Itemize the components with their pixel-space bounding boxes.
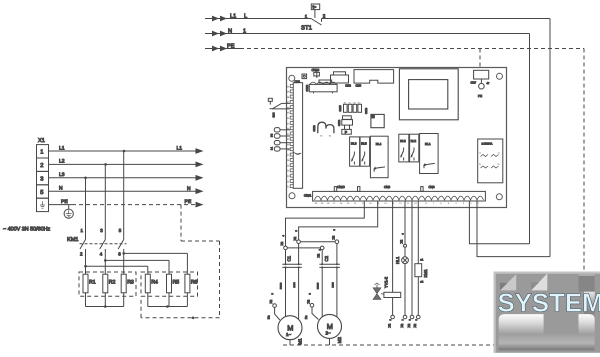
relay RL3 — [399, 134, 409, 162]
wire pin1 to L — [477, 201, 550, 257]
wire L1 from X1 — [49, 150, 197, 152]
wire PE from X1 dashed — [49, 204, 73, 206]
svg-text:14: 14 — [479, 151, 481, 154]
svg-text:X2: X2 — [407, 323, 411, 327]
relay module K2 2.5kW — [478, 139, 503, 183]
svg-text:RL2: RL2 — [411, 139, 417, 143]
wire PE branch down to CN7 — [479, 49, 481, 71]
resistor R6 — [185, 274, 190, 293]
svg-text:R6: R6 — [191, 280, 198, 286]
wire L3 from X1 — [49, 177, 197, 179]
svg-text:CN7: CN7 — [471, 81, 477, 85]
svg-text:CN11: CN11 — [304, 193, 312, 197]
relay RL4 — [370, 136, 388, 178]
relay RL5 — [360, 137, 370, 166]
svg-text:5: 5 — [295, 230, 298, 232]
svg-text:L3: L3 — [59, 172, 65, 178]
svg-text:RL5: RL5 — [361, 142, 367, 146]
svg-text:N: N — [187, 186, 191, 192]
terminal cover top — [354, 70, 394, 84]
external switch SB1 — [268, 98, 272, 101]
svg-text:X1: X1 — [38, 138, 45, 144]
resistor R5 — [167, 274, 172, 293]
svg-text:CN2: CN2 — [345, 83, 351, 87]
capacitor C1 — [285, 250, 287, 265]
svg-text:2~: 2~ — [326, 331, 331, 336]
wire L2 from X1 — [49, 163, 197, 165]
star point bus R1-R3 — [85, 293, 87, 307]
wire PE dashed branch down from X1 PE line — [180, 205, 182, 241]
KM1 linkage dashed — [80, 243, 127, 245]
KM1 pole 1 — [85, 178, 87, 240]
component D1 small square — [302, 74, 307, 79]
svg-text:X2: X2 — [293, 236, 297, 240]
svg-text:13: 13 — [498, 151, 500, 154]
svg-text:RL4: RL4 — [376, 142, 382, 146]
svg-text:X2: X2 — [413, 323, 417, 327]
svg-text:2: 2 — [40, 162, 43, 169]
wire X2-4 to X2-4b — [287, 247, 320, 249]
svg-text:4: 4 — [282, 235, 285, 237]
node X2-7 — [403, 315, 407, 319]
svg-text:CN20: CN20 — [338, 119, 341, 126]
IC U1 — [371, 114, 384, 127]
node X2-8 — [410, 315, 414, 319]
svg-text:blu: blu — [268, 315, 271, 319]
svg-text:1: 1 — [40, 150, 43, 156]
svg-text:2: 2 — [80, 252, 83, 257]
svg-text:3: 3 — [401, 233, 404, 235]
relay RL1 — [420, 134, 439, 174]
svg-text:SB8: SB8 — [272, 112, 275, 117]
svg-text:1: 1 — [243, 28, 246, 34]
svg-text:~ 400V 3N 50/60Hz: ~ 400V 3N 50/60Hz — [3, 227, 51, 233]
relay module CN2/CN3 — [331, 75, 349, 83]
svg-text:HL1: HL1 — [395, 256, 400, 264]
wire C2 to M2 — [321, 267, 323, 317]
svg-text:L: L — [244, 13, 247, 19]
svg-text:3: 3 — [100, 228, 103, 233]
mounting hole — [289, 75, 295, 81]
svg-text:23: 23 — [498, 163, 500, 166]
svg-text:5: 5 — [119, 228, 122, 233]
relay RL2 — [410, 134, 419, 162]
svg-text:L1: L1 — [177, 146, 183, 152]
mounting hole — [289, 193, 295, 199]
svg-text:R3: R3 — [127, 280, 134, 286]
wire PE down right side — [583, 49, 585, 273]
motor M2 — [318, 314, 342, 338]
lamp HL1 — [402, 257, 409, 264]
svg-text:M1: M1 — [298, 338, 303, 345]
resistor R2 — [103, 274, 108, 293]
node X2-2 (M2) — [310, 303, 314, 307]
star point bus R4-R6 — [147, 293, 149, 307]
svg-text:4: 4 — [100, 252, 103, 257]
coil KM1 — [417, 201, 419, 264]
svg-text:L1: L1 — [230, 13, 236, 19]
relay RL6 — [350, 137, 360, 166]
svg-text:R2: R2 — [109, 280, 116, 286]
svg-text:blu: blu — [305, 315, 308, 319]
svg-text:1: 1 — [81, 228, 84, 233]
transformer T1 — [399, 69, 458, 120]
mounting hole — [496, 194, 502, 200]
wire pin15 to X2-5 — [299, 201, 378, 240]
svg-text:5: 5 — [40, 190, 43, 196]
svg-text:1~: 1~ — [286, 332, 291, 337]
wire X2-5 to X2-5b — [300, 241, 335, 243]
svg-text:C1: C1 — [287, 255, 292, 261]
svg-text:nero: nero — [332, 282, 335, 288]
svg-text:5: 5 — [333, 229, 336, 231]
svg-text:ST1: ST1 — [301, 25, 313, 32]
svg-text:X2: X2 — [331, 235, 335, 239]
node X2-3 — [404, 244, 407, 247]
svg-text:X2: X2 — [387, 323, 391, 327]
component above CN12 — [319, 80, 332, 83]
wire pole3 to R3 and R6 — [122, 252, 125, 255]
svg-text:L2: L2 — [59, 159, 65, 165]
wire pin11 to HL1 — [404, 201, 406, 244]
svg-text:2.5kW/4A: 2.5kW/4A — [482, 142, 493, 145]
wire L feed top — [205, 18, 311, 20]
svg-text:C2: C2 — [324, 255, 329, 261]
svg-text:rosso: rosso — [316, 282, 319, 289]
svg-text:M2: M2 — [337, 337, 342, 344]
svg-text:RL1: RL1 — [425, 142, 431, 146]
wire PE feed top dashed — [205, 48, 240, 50]
resistor R3 — [121, 274, 126, 293]
wire pin10 down — [411, 201, 413, 315]
wire X2-5b to C2 — [336, 244, 338, 265]
node X2-5b — [335, 240, 339, 244]
heating bank enclosure 2 dashed — [141, 272, 198, 296]
wire pin2 to N — [469, 201, 529, 244]
svg-text:CN6: CN6 — [429, 185, 435, 189]
svg-text:CN13: CN13 — [312, 68, 320, 72]
svg-text:CN12: CN12 — [306, 84, 309, 91]
svg-text:CN15: CN15 — [339, 105, 342, 112]
wire PE dashed under motors — [283, 344, 494, 346]
svg-text:R4: R4 — [151, 280, 158, 286]
svg-text:1: 1 — [305, 14, 308, 19]
mounting hole — [497, 73, 503, 79]
svg-text:CN3: CN3 — [356, 83, 362, 87]
node X2-2 (M1) — [273, 304, 277, 308]
wire N down right side — [529, 34, 531, 244]
node PE junction — [192, 317, 195, 320]
wire X2-4b to C2 — [321, 250, 323, 265]
node X2-5 — [297, 240, 301, 244]
wire pin12 to YV1-2 — [392, 201, 394, 292]
earth symbol below PE — [68, 205, 70, 209]
wire L to right — [322, 18, 551, 20]
wire C1 to M1 — [285, 267, 287, 316]
wire L down right side — [549, 19, 551, 257]
heating bank enclosure 1 dashed — [79, 272, 136, 296]
svg-text:SYSTEM: SYSTEM — [498, 288, 600, 318]
svg-text:I-1: I-1 — [270, 146, 273, 150]
svg-text:CN16: CN16 — [313, 125, 316, 132]
svg-text:2: 2 — [323, 14, 326, 19]
node X2-9 — [417, 315, 421, 319]
KM1 pole 2 — [104, 164, 106, 239]
svg-text:a2: a2 — [420, 280, 423, 283]
svg-text:CN10: CN10 — [337, 185, 345, 189]
svg-text:t>: t> — [313, 5, 317, 10]
svg-text:nero: nero — [293, 282, 296, 288]
svg-text:L1: L1 — [59, 145, 65, 151]
resistor R4 — [145, 274, 150, 293]
svg-text:PE: PE — [227, 43, 235, 49]
svg-text:2: 2 — [308, 293, 311, 295]
component P box — [342, 129, 352, 134]
wire pin17 to X2-4 — [286, 201, 365, 246]
node X2-1 — [391, 315, 395, 319]
svg-text:RL3: RL3 — [400, 139, 406, 143]
PCB board outline — [287, 68, 507, 208]
resistor R1 — [83, 274, 88, 293]
svg-text:24: 24 — [479, 163, 481, 166]
svg-text:KM1: KM1 — [67, 237, 79, 243]
svg-text:X2: X2 — [400, 323, 404, 327]
svg-text:X2: X2 — [400, 239, 404, 243]
svg-text:CN18: CN18 — [365, 107, 368, 114]
wire N from X1 — [49, 190, 197, 192]
wire pole1 to R1 and R4 — [84, 265, 87, 268]
svg-text:a1: a1 — [420, 259, 423, 262]
connector CN7 — [474, 70, 489, 79]
svg-text:CN8: CN8 — [384, 185, 390, 189]
node L1 input arrows — [212, 16, 219, 22]
svg-text:X2: X2 — [317, 253, 321, 257]
svg-text:R1: R1 — [89, 280, 96, 286]
KM1 pole 3 — [123, 151, 125, 240]
svg-text:PE: PE — [61, 199, 68, 205]
svg-text:N: N — [228, 28, 232, 34]
node X2-4b — [320, 246, 324, 250]
svg-text:P2: P2 — [270, 133, 273, 137]
wire pole2 to R2 and R5 — [104, 259, 107, 262]
svg-text:PE: PE — [185, 199, 192, 205]
svg-text:YV1-2: YV1-2 — [384, 276, 389, 288]
svg-text:6: 6 — [118, 252, 121, 257]
wire N feed top — [205, 33, 530, 35]
svg-text:2: 2 — [271, 293, 274, 295]
svg-text:RL6: RL6 — [351, 142, 357, 146]
svg-text:X2: X2 — [269, 299, 273, 303]
svg-text:N: N — [59, 186, 63, 192]
svg-text:X2: X2 — [280, 241, 284, 245]
svg-text:PE: PE — [478, 94, 482, 98]
node X2-4 — [284, 246, 288, 250]
svg-text:KM1: KM1 — [423, 269, 428, 278]
motor M1 — [278, 316, 302, 340]
svg-text:3: 3 — [40, 175, 43, 182]
svg-text:X2: X2 — [307, 299, 311, 303]
svg-text:rosso: rosso — [280, 282, 283, 289]
svg-text:R5: R5 — [173, 280, 180, 286]
solenoid valve YV1-2 — [373, 288, 381, 294]
connector CN12 — [309, 84, 337, 91]
